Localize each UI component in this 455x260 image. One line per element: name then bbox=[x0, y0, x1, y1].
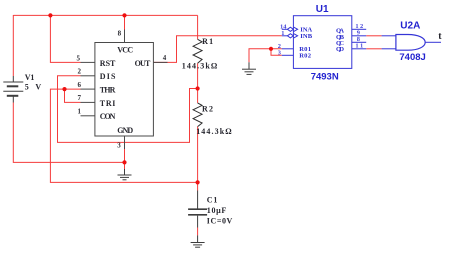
svg-text:5: 5 bbox=[77, 55, 81, 63]
svg-text:RST: RST bbox=[100, 59, 116, 68]
svg-text:7: 7 bbox=[78, 94, 82, 102]
svg-text:2: 2 bbox=[78, 68, 82, 76]
svg-text:11: 11 bbox=[355, 43, 363, 50]
svg-text:5 V: 5 V bbox=[25, 83, 42, 92]
svg-text:6: 6 bbox=[78, 81, 82, 89]
svg-text:TRI: TRI bbox=[100, 99, 116, 108]
svg-text:7493N: 7493N bbox=[311, 72, 339, 83]
svg-text:DIS: DIS bbox=[100, 72, 116, 81]
svg-text:144.3kΩ: 144.3kΩ bbox=[182, 62, 218, 71]
svg-text:OUT: OUT bbox=[135, 59, 151, 68]
svg-text:U1: U1 bbox=[316, 4, 329, 15]
svg-text:U2A: U2A bbox=[400, 20, 420, 31]
svg-text:V1: V1 bbox=[25, 73, 35, 82]
svg-text:R2: R2 bbox=[202, 104, 213, 113]
svg-text:1: 1 bbox=[281, 30, 284, 37]
svg-text:10µF: 10µF bbox=[207, 206, 227, 215]
svg-text:3: 3 bbox=[278, 49, 281, 56]
svg-text:144.3kΩ: 144.3kΩ bbox=[196, 127, 232, 136]
svg-text:3: 3 bbox=[117, 142, 121, 150]
svg-text:t: t bbox=[438, 31, 442, 42]
svg-text:7408J: 7408J bbox=[399, 52, 425, 63]
svg-text:GND: GND bbox=[117, 126, 133, 135]
svg-text:C1: C1 bbox=[207, 195, 218, 204]
svg-text:8: 8 bbox=[118, 29, 122, 37]
svg-text:R1: R1 bbox=[202, 37, 213, 46]
svg-text:4: 4 bbox=[163, 54, 167, 62]
svg-text:INB: INB bbox=[300, 33, 313, 40]
svg-text:VCC: VCC bbox=[117, 45, 133, 54]
svg-text:1: 1 bbox=[78, 108, 82, 116]
svg-text:IC=0V: IC=0V bbox=[207, 216, 233, 225]
svg-text:R02: R02 bbox=[299, 53, 312, 60]
svg-text:QD: QD bbox=[336, 46, 344, 53]
svg-text:THR: THR bbox=[100, 86, 116, 95]
svg-text:CON: CON bbox=[100, 112, 116, 121]
